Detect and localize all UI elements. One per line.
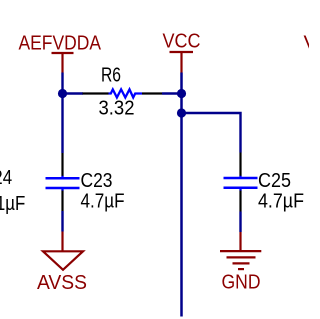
capacitor C23 (46, 153, 125, 213)
svg-text:GND: GND (222, 271, 261, 294)
wire AEFVDDA to node A (61, 73, 63, 94)
svg-text:AVSS: AVSS (37, 271, 87, 294)
svg-text:4.7µF: 4.7µF (258, 190, 304, 213)
wire VCC vertical net (180, 73, 183, 317)
svg-text:3.32: 3.32 (99, 97, 135, 120)
svg-text:V: V (304, 32, 310, 55)
capacitor C24 label (clipped at left edge) (0, 166, 25, 215)
power port AVSS (37, 232, 87, 295)
svg-text:0.1µF: 0.1µF (0, 192, 25, 215)
ground GND (220, 232, 261, 294)
power port VCC (163, 30, 201, 73)
node C junction (177, 108, 186, 117)
svg-text:4.7µF: 4.7µF (81, 190, 125, 213)
wire node C to C25 branch (182, 113, 241, 153)
svg-text:R6: R6 (101, 64, 121, 87)
power port AEFVDDA (19, 32, 102, 73)
svg-text:AEFVDDA: AEFVDDA (19, 32, 102, 55)
node A junction (58, 89, 67, 98)
wire capacitor C25 to GND (239, 212, 241, 233)
capacitor C25 (224, 153, 305, 213)
svg-text:C24: C24 (0, 166, 12, 189)
svg-text:VCC: VCC (163, 30, 201, 53)
node B junction (177, 89, 186, 98)
wire capacitor C23 to AVSS (61, 211, 63, 232)
wire node A down to capacitor C23 (61, 94, 63, 154)
resistor R6 (83, 64, 163, 120)
wire node A to resistor R6 pin 1 (63, 92, 84, 94)
wire resistor R6 pin 2 to node B (162, 92, 182, 94)
